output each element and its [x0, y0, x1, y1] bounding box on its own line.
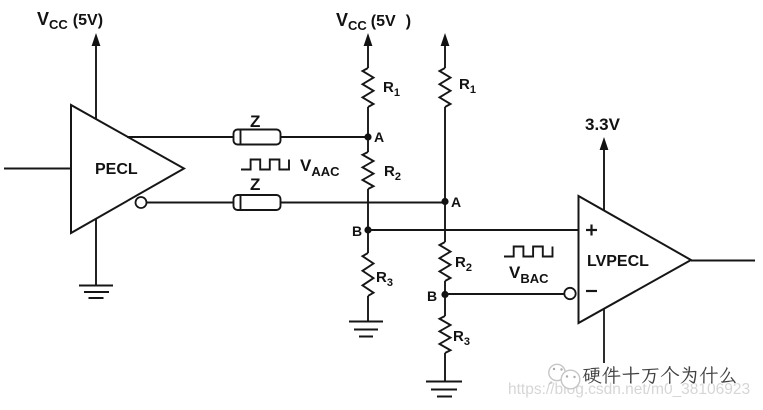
svg-text:R3: R3 — [453, 328, 470, 348]
inversion bubble on LVPECL - input — [564, 288, 575, 299]
wire PECL input — [4, 168, 71, 170]
svg-text:A: A — [451, 194, 461, 210]
svg-text:R2: R2 — [384, 163, 401, 183]
power VCC (5V) label left — [37, 9, 103, 32]
wire LVPECL bottom lead — [603, 309, 605, 364]
wire R1 to node A (chain 1) — [367, 107, 369, 137]
wire Z1 to node A chain1 — [281, 136, 369, 138]
power VCC arrow (PECL supply) — [92, 33, 101, 119]
resistor R3 (chain 2) — [440, 316, 451, 353]
power 3.3V arrow (LVPECL supply) — [600, 137, 609, 210]
wire R2 to node B (chain 2) — [444, 281, 446, 295]
svg-text:Z: Z — [250, 112, 260, 131]
svg-text:VCC(5V): VCC(5V) — [37, 9, 103, 32]
wire node B chain2 to LVPECL inversion bubble — [445, 293, 565, 295]
resistor R1 (chain 1) — [363, 68, 374, 107]
svg-text:3.3V: 3.3V — [585, 115, 621, 134]
power VCC (5V) label middle — [336, 10, 411, 33]
inversion bubble on PECL inverted output — [136, 197, 147, 208]
wire R3 to ground (chain 1) — [367, 296, 369, 322]
svg-text:R3: R3 — [376, 269, 393, 289]
wire node B chain1 to LVPECL + input — [368, 229, 579, 231]
ground (PECL) — [79, 286, 113, 299]
power VCC arrow (chain 2) — [441, 33, 450, 68]
node A (chain 1) — [364, 133, 371, 140]
wire node A to R2 (chain 1) — [367, 137, 369, 152]
svg-text:R1: R1 — [383, 79, 400, 99]
watermark logo — [548, 364, 580, 389]
svg-text:R1: R1 — [459, 76, 476, 96]
resistor R3 (chain 1) — [363, 253, 374, 296]
svg-text:PECL: PECL — [95, 161, 138, 178]
wire node A to R2 (chain 2) — [444, 202, 446, 243]
svg-text:A: A — [374, 129, 384, 145]
svg-text:VAAC: VAAC — [300, 156, 340, 179]
op-amp U2 LVPECL — [579, 196, 692, 323]
wire node B to R3 (chain 2) — [444, 295, 446, 317]
wire PECL true output to Z1 — [127, 136, 234, 138]
svg-text:B: B — [352, 223, 362, 239]
transmission line Z2 — [234, 195, 281, 210]
power VCC arrow (chain 1) — [364, 33, 373, 68]
squarewave symbol VAAC — [241, 160, 289, 170]
svg-text:Z: Z — [250, 175, 260, 194]
svg-text:R2: R2 — [455, 254, 472, 274]
node A (chain 2) — [441, 198, 448, 205]
svg-text:B: B — [427, 288, 437, 304]
label - input pin — [586, 290, 597, 292]
watermark site name — [583, 366, 736, 384]
squarewave symbol VBAC — [504, 247, 553, 257]
wire bubble to Z2 — [147, 202, 235, 204]
resistor R2 (chain 1) — [363, 152, 374, 189]
wire R1 to node A (chain 2) — [444, 107, 446, 202]
wire R3 to ground (chain 2) — [444, 353, 446, 382]
resistor R1 (chain 2) — [440, 68, 451, 107]
ground (chain 1) — [349, 322, 383, 337]
svg-text:https://blog.csdn.net/m0_38106: https://blog.csdn.net/m0_38106923 — [508, 381, 750, 398]
node B (chain 1) — [364, 226, 371, 233]
resistor R2 (chain 2) — [440, 242, 451, 281]
wire LVPECL output — [691, 260, 755, 262]
transmission line Z1 — [234, 130, 281, 145]
wire R2 to node B (chain 1) — [367, 189, 369, 230]
svg-text:VBAC: VBAC — [509, 263, 549, 286]
node B (chain 2) — [441, 291, 448, 298]
wire Z2 to node A chain2 — [281, 202, 446, 204]
label + input pin — [586, 225, 597, 236]
op-amp U1 PECL buffer — [71, 105, 184, 233]
wire PECL ground lead — [95, 219, 97, 286]
svg-text:LVPECL: LVPECL — [587, 253, 649, 270]
ground (chain 2) — [426, 382, 462, 397]
wire node B to R3 (chain 1) — [367, 230, 369, 253]
svg-text:VCC(5V): VCC(5V) — [336, 10, 411, 33]
